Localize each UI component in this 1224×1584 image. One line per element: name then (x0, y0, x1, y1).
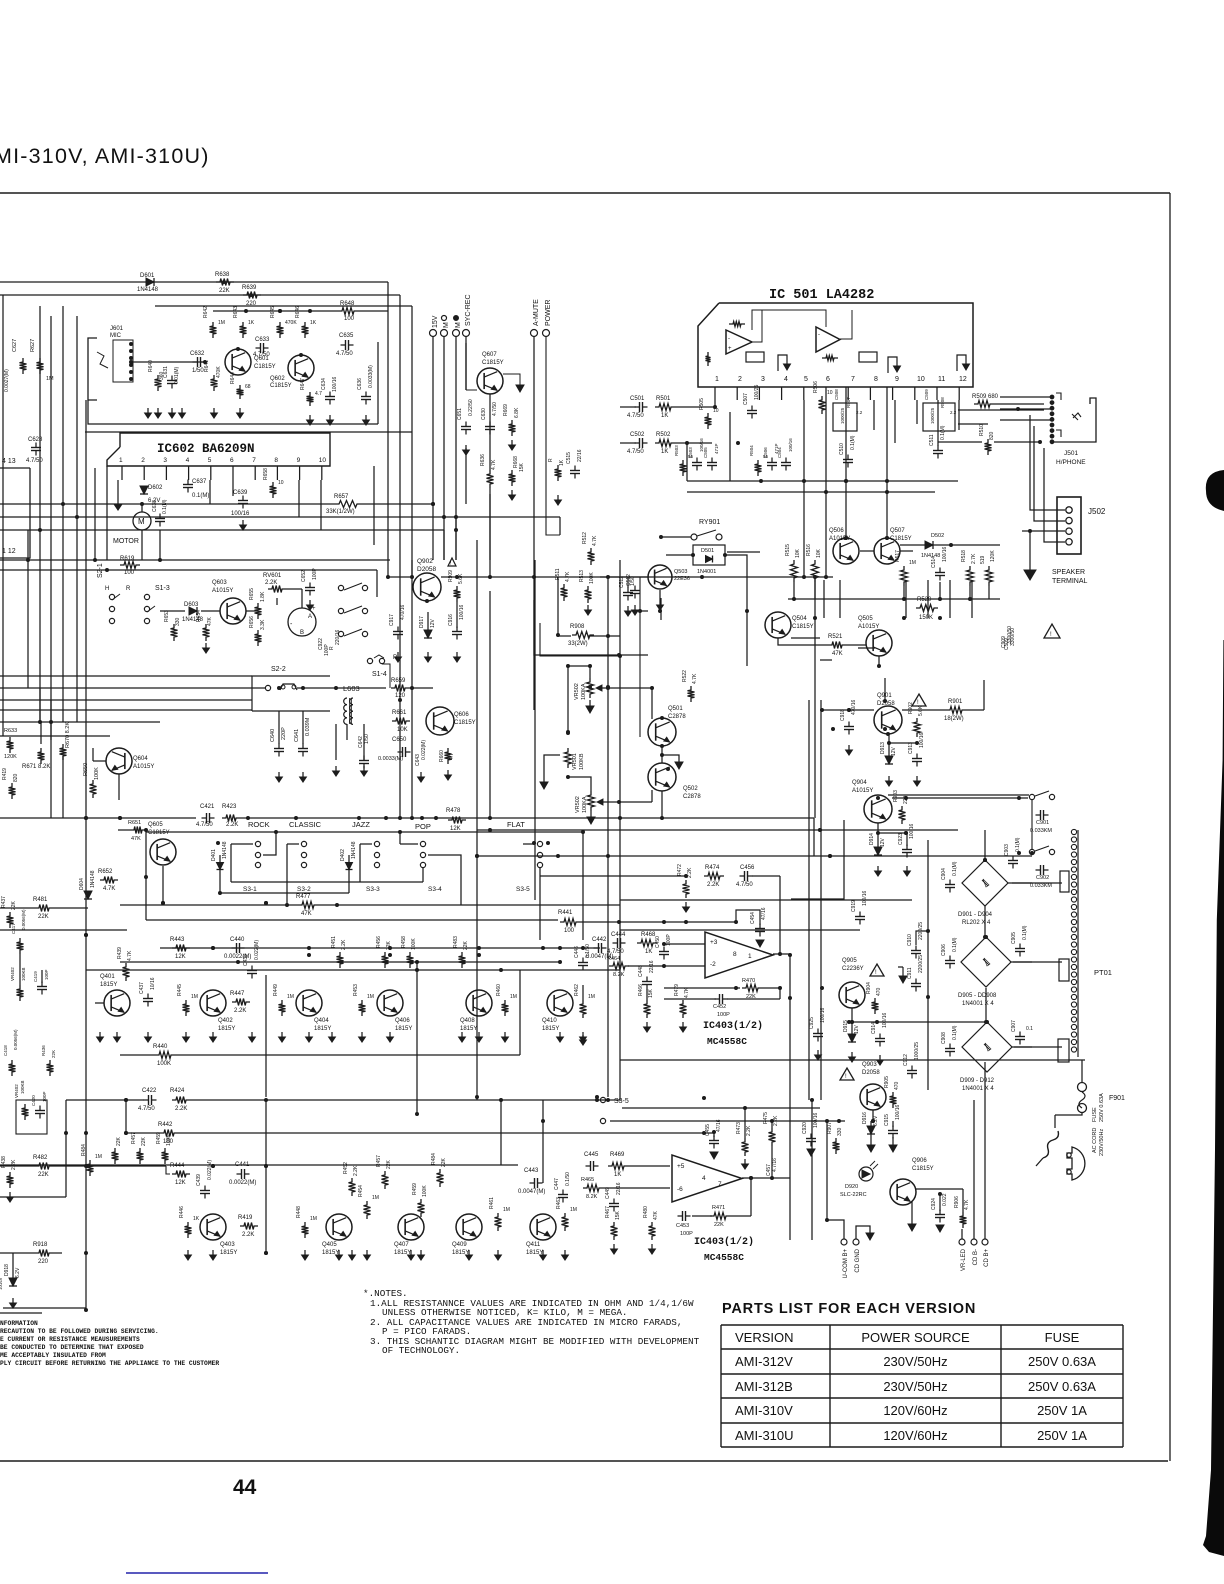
svg-text:C904: C904 (941, 868, 947, 880)
svg-text:250V 0.63A: 250V 0.63A (1028, 1354, 1096, 1369)
capacitor C505 (703, 443, 719, 470)
svg-text:A1015Y: A1015Y (133, 764, 154, 770)
transistor Q408 (460, 990, 492, 1032)
svg-text:R643: R643 (233, 306, 239, 318)
svg-text:POWER: POWER (545, 300, 552, 326)
svg-text:R424: R424 (170, 1088, 185, 1094)
svg-text:A1015Y: A1015Y (858, 624, 879, 630)
svg-text:9: 9 (895, 376, 899, 383)
capacitor C501 (627, 396, 648, 419)
svg-text:470K: 470K (216, 366, 222, 378)
svg-text:2.2K: 2.2K (226, 822, 238, 828)
svg-text:+: + (728, 346, 732, 352)
svg-text:0.1(M): 0.1(M) (952, 861, 958, 876)
svg-text:C506: C506 (763, 447, 768, 458)
svg-text:100K: 100K (157, 1061, 171, 1067)
resistor R669 (503, 404, 520, 450)
switch S3-3 (360, 841, 380, 893)
wire row y736 (0, 735, 110, 737)
capacitor C444 (607, 932, 626, 955)
svg-text:R448: R448 (296, 1206, 302, 1218)
svg-text:2: 2 (738, 376, 742, 383)
svg-text:47K: 47K (832, 651, 843, 657)
capacitor C925 (809, 1007, 826, 1060)
svg-text:R: R (393, 655, 398, 661)
svg-text:C906: C906 (941, 944, 947, 956)
IC501 pin stubs (715, 387, 959, 400)
capacitor C651 (457, 399, 474, 455)
svg-text:-6: -6 (677, 1186, 683, 1193)
svg-text:22/16: 22/16 (577, 449, 583, 462)
capacitor C914 (871, 1012, 888, 1065)
resistor R653 (164, 610, 181, 641)
svg-text:100KB: 100KB (20, 1080, 25, 1094)
wire testpoint A-MUTE (531, 299, 541, 710)
svg-text:100K: 100K (94, 767, 100, 780)
parts table (721, 1325, 1123, 1447)
IC602 outline (107, 433, 330, 466)
svg-text:C902: C902 (1036, 875, 1049, 881)
svg-text:AMI-310V: AMI-310V (735, 1403, 793, 1418)
svg-text:ME ACCEPTABLY INSULATED FROM: ME ACCEPTABLY INSULATED FROM (0, 1352, 106, 1359)
svg-text:0.1(M): 0.1(M) (850, 435, 856, 450)
diode D918 (0, 1253, 21, 1308)
svg-text:0.0027(M): 0.0027(M) (4, 369, 10, 392)
transistor Q404 (296, 990, 331, 1032)
svg-text:Q505: Q505 (858, 616, 873, 622)
svg-text:C916: C916 (448, 614, 454, 626)
svg-text:C447: C447 (554, 1178, 560, 1190)
svg-text:R660: R660 (439, 750, 445, 762)
svg-text:Q604: Q604 (133, 756, 148, 762)
svg-text:22/16: 22/16 (649, 960, 655, 973)
svg-text:100/16: 100/16 (862, 890, 868, 906)
svg-text:1M: 1M (46, 376, 54, 382)
capacitor C454 (734, 907, 767, 947)
wire opamp b net (692, 1176, 790, 1216)
svg-text:100/16: 100/16 (942, 546, 948, 562)
svg-text:1N4148: 1N4148 (90, 870, 96, 888)
capacitor C632 (190, 351, 206, 374)
wire IC501 right web (938, 404, 1044, 442)
svg-text:1M: 1M (367, 994, 374, 1000)
svg-text:2.2K: 2.2K (746, 1125, 752, 1136)
resistor R419L (2, 768, 19, 799)
svg-text:R644: R644 (230, 372, 236, 384)
svg-text:R516: R516 (806, 544, 812, 556)
svg-text:C501: C501 (630, 396, 645, 402)
svg-text:2200/25: 2200/25 (918, 955, 924, 973)
resistor R437 (1, 896, 17, 928)
resistor R655 (249, 588, 266, 619)
svg-text:100K: 100K (166, 1134, 172, 1146)
svg-text:R466: R466 (638, 984, 644, 996)
svg-text:+: + (312, 606, 316, 612)
svg-text:R446: R446 (179, 1206, 185, 1218)
resistor R502 (655, 432, 675, 455)
resistor R509 (972, 394, 999, 408)
wire mute web (640, 551, 913, 618)
resistor R519 (980, 550, 996, 599)
transistor Q410 (542, 990, 573, 1032)
svg-text:4.7/50: 4.7/50 (492, 402, 498, 416)
svg-text:C420: C420 (31, 1095, 36, 1106)
transistor Q501 (648, 706, 686, 746)
wire bus y504 (0, 503, 433, 505)
wire left verts mid (28, 306, 51, 722)
svg-text:12V: 12V (854, 1024, 860, 1034)
resistor R511 (555, 568, 571, 601)
svg-text:5: 5 (804, 376, 808, 383)
left cluster C418 (3, 1029, 18, 1076)
resistor R908 (568, 624, 594, 647)
svg-text:C511: C511 (929, 434, 935, 446)
svg-text:Q906: Q906 (912, 1158, 927, 1164)
svg-text:C639: C639 (233, 490, 248, 496)
svg-text:2.2K: 2.2K (707, 882, 719, 888)
capacitor C628 (26, 437, 43, 464)
wire ps top (820, 680, 984, 710)
capacitor C901 (1030, 810, 1052, 834)
svg-text:250V 0.63A: 250V 0.63A (1028, 1379, 1096, 1394)
svg-text:0.0056(M): 0.0056(M) (21, 909, 26, 930)
svg-text:10: 10 (319, 457, 327, 464)
svg-text:Q905: Q905 (842, 958, 857, 964)
svg-text:Q407: Q407 (394, 1242, 409, 1248)
capacitor C439 (196, 1160, 213, 1199)
wire IC501 down web (804, 387, 959, 538)
resistor R510 (979, 424, 995, 455)
row2 top resistors (0, 1136, 518, 1165)
resistor R457b (131, 1132, 147, 1164)
wire trunk G (790, 577, 815, 1240)
op-amp U1b (816, 327, 840, 352)
svg-text:Q902: Q902 (417, 558, 433, 565)
label J501 (1056, 450, 1086, 466)
svg-text:J501: J501 (1064, 450, 1078, 457)
svg-text:1N4148: 1N4148 (351, 841, 357, 859)
capacitor C915 (884, 1104, 901, 1152)
transistor Q506 (829, 528, 859, 564)
svg-text:C456: C456 (740, 865, 755, 871)
capacitor C514 (931, 546, 948, 599)
svg-text:H/PHONE: H/PHONE (1056, 459, 1086, 466)
svg-text:1000/25: 1000/25 (930, 407, 935, 424)
svg-text:4.7K: 4.7K (964, 1199, 970, 1210)
svg-text:CD GND: CD GND (855, 1248, 861, 1272)
svg-text:D920: D920 (845, 1184, 858, 1190)
svg-text:1M: 1M (588, 994, 595, 1000)
capacitor C923 (898, 823, 915, 876)
svg-text:R481: R481 (33, 897, 48, 903)
svg-text:471P: 471P (714, 443, 719, 454)
svg-text:1000/25: 1000/25 (914, 1042, 920, 1060)
svg-text:47K: 47K (131, 836, 141, 842)
svg-text:470/16: 470/16 (400, 604, 406, 620)
IC602 pin wires (122, 466, 322, 530)
wire web x490 long (489, 494, 491, 818)
svg-text:Q401: Q401 (100, 974, 115, 980)
svg-text:MI-310V, AMI-310U): MI-310V, AMI-310U) (0, 144, 210, 168)
svg-text:120K: 120K (4, 754, 17, 760)
svg-text:C454: C454 (750, 912, 756, 924)
capacitor C907 (1011, 1020, 1033, 1045)
svg-text:120V/60Hz: 120V/60Hz (883, 1428, 947, 1443)
svg-text:10/16: 10/16 (150, 977, 156, 990)
svg-text:S3-5: S3-5 (614, 1098, 629, 1105)
bridge rectifier D905-D908 (958, 937, 1011, 1007)
svg-text:C638: C638 (152, 500, 158, 512)
switch mains 2 (1029, 846, 1054, 855)
capacitor C906 (941, 937, 958, 968)
svg-text:C1815Y: C1815Y (270, 383, 292, 389)
notes text (363, 1288, 700, 1356)
svg-text:3: 3 (761, 376, 765, 383)
svg-text:Q602: Q602 (270, 376, 285, 382)
svg-text:47K: 47K (207, 616, 213, 626)
svg-text:C630: C630 (481, 408, 487, 420)
wire bottom right verts (938, 1192, 941, 1211)
svg-text:R461: R461 (489, 1197, 495, 1209)
wire row y676 (0, 675, 252, 677)
right border (1169, 193, 1171, 1461)
svg-text:C1815Y: C1815Y (254, 364, 276, 370)
svg-text:15K: 15K (648, 988, 654, 998)
bridge rectifier D909-D912 (960, 1022, 1012, 1092)
svg-text:NFORMATION: NFORMATION (0, 1320, 38, 1327)
svg-text:R518: R518 (961, 550, 967, 562)
resistor R503 (674, 445, 694, 476)
svg-text:R656: R656 (249, 616, 255, 628)
svg-text:C908: C908 (941, 1032, 947, 1044)
capacitor C918 (840, 699, 857, 755)
switch mains 1 (1029, 791, 1054, 800)
wire q501 net (660, 746, 683, 769)
svg-text:C915: C915 (884, 1114, 890, 1126)
svg-text:11: 11 (938, 376, 945, 383)
resistor R448 (296, 1206, 317, 1238)
svg-text:4.7/50: 4.7/50 (253, 352, 270, 358)
resistor R442 (158, 1122, 178, 1145)
svg-text:D401: D401 (211, 849, 217, 861)
svg-text:C508: C508 (834, 389, 839, 400)
svg-text:8: 8 (874, 376, 878, 383)
label MC4558C b (704, 1252, 744, 1263)
transistor Q405 (322, 1214, 352, 1256)
svg-text:100K: 100K (589, 572, 595, 584)
svg-text:R: R (329, 646, 335, 650)
wire opamp a net (583, 944, 790, 1000)
svg-text:R640: R640 (148, 360, 154, 372)
svg-text:R458: R458 (401, 936, 407, 948)
resistor R444 (170, 1163, 190, 1186)
svg-text:C449: C449 (605, 1187, 611, 1199)
svg-text:C924: C924 (931, 1198, 937, 1210)
svg-text:C641: C641 (294, 729, 300, 742)
svg-text:R642: R642 (203, 306, 209, 318)
transistor Q407 (394, 1214, 424, 1256)
resistor R654 (196, 610, 213, 653)
svg-text:R459: R459 (156, 1132, 162, 1144)
svg-text:R513: R513 (579, 570, 585, 582)
svg-text:VR502: VR502 (574, 683, 580, 700)
svg-text:8: 8 (274, 457, 278, 464)
svg-text:R465: R465 (581, 1177, 594, 1183)
resistor R904 (866, 982, 882, 1014)
svg-text:12K: 12K (450, 826, 461, 832)
svg-text:1K: 1K (310, 320, 317, 326)
svg-text:!: ! (450, 561, 451, 567)
resistor R484c (431, 1153, 447, 1187)
svg-text:C503: C503 (688, 447, 693, 458)
diode D914 (869, 833, 886, 876)
resistor R661 (392, 710, 410, 733)
svg-text:100/16: 100/16 (332, 376, 338, 392)
capacitor C447 (554, 1172, 571, 1203)
svg-text:-: - (728, 336, 730, 342)
connector CD B- (971, 1100, 979, 1265)
svg-text:R475: R475 (763, 1112, 769, 1124)
wire to phones (0, 0, 1, 1)
resistor R441 (558, 910, 736, 934)
wire net y492 (687, 491, 935, 493)
IC501 inner wire ext (752, 310, 852, 342)
svg-text:470K: 470K (285, 320, 297, 326)
svg-text:0.033KM: 0.033KM (1030, 883, 1052, 889)
capacitor C511i (929, 425, 946, 458)
resistor R457 (0, 0, 1, 1)
resistor R501 (655, 396, 675, 419)
svg-text:4.7: 4.7 (315, 391, 322, 397)
svg-text:22K: 22K (714, 1222, 724, 1228)
svg-text:AC CORD: AC CORD (1092, 1128, 1098, 1153)
resistor R902 (908, 702, 924, 737)
wire eq outputs (0, 907, 88, 909)
resistor R436 (41, 1045, 56, 1076)
resistor R660 (439, 748, 455, 764)
svg-text:R907: R907 (827, 1122, 833, 1134)
svg-text:1815Y: 1815Y (100, 982, 117, 988)
svg-text:SLC-22RC: SLC-22RC (840, 1192, 867, 1198)
svg-text:R453: R453 (353, 984, 359, 996)
left cluster C417 (11, 909, 26, 954)
svg-text:22K: 22K (219, 288, 230, 294)
wire R636 down (466, 448, 490, 560)
fuse F901 (1078, 1060, 1126, 1113)
capacitor C448 (638, 960, 655, 989)
capacitor C640 (270, 711, 287, 782)
pot RV601 (263, 573, 286, 593)
diode D604 (79, 870, 96, 899)
svg-text:6: 6 (230, 457, 234, 464)
svg-text:F901: F901 (1109, 1095, 1125, 1102)
svg-text:A1015Y: A1015Y (212, 588, 233, 594)
capacitor C510b (0, 0, 1, 1)
svg-text:R636: R636 (480, 454, 486, 466)
resistor R645 (270, 306, 297, 338)
svg-text:R484: R484 (431, 1153, 437, 1165)
transistor Q905 (839, 958, 865, 1008)
svg-text:Q506: Q506 (829, 528, 844, 534)
svg-text:Q409: Q409 (452, 1242, 467, 1248)
wire L603 (336, 724, 364, 760)
svg-text:C443: C443 (524, 1168, 539, 1174)
svg-text:D601: D601 (140, 273, 155, 279)
transistor Q603 (212, 580, 246, 624)
svg-text:M: M (443, 322, 450, 328)
svg-text:C633: C633 (255, 337, 270, 343)
svg-text:Q607: Q607 (482, 352, 497, 358)
svg-text:R472: R472 (677, 864, 683, 876)
resistor R642 (203, 306, 225, 338)
svg-text:R905: R905 (884, 1076, 890, 1088)
capacitor C908 (941, 1025, 958, 1056)
svg-text:1: 1 (715, 376, 719, 383)
svg-text:1M: 1M (191, 994, 198, 1000)
svg-text:3.3K: 3.3K (260, 619, 266, 630)
wire rail over transistors (213, 309, 338, 312)
svg-text:10K: 10K (816, 548, 822, 558)
svg-text:100/16: 100/16 (0, 1277, 3, 1290)
svg-text:0.022(M): 0.022(M) (254, 940, 260, 960)
diode D402 (340, 841, 357, 893)
capacitor C641 (294, 711, 311, 782)
svg-text:R646: R646 (295, 306, 301, 318)
svg-text:2.2: 2.2 (856, 410, 863, 415)
svg-text:33K(1/2W): 33K(1/2W) (326, 509, 355, 515)
wire testpoint 15V (430, 315, 440, 504)
jack J501 contacts (1050, 393, 1061, 444)
svg-text:C651: C651 (457, 408, 463, 420)
wire left vert 1 (3, 295, 63, 736)
svg-text:12V: 12V (430, 618, 436, 628)
capacitor C639 (231, 490, 250, 517)
svg-text:+5: +5 (677, 1163, 685, 1170)
svg-text:AMI-312V: AMI-312V (735, 1354, 793, 1369)
svg-text:230V/50Hz: 230V/50Hz (883, 1379, 947, 1394)
IC501 under web (687, 442, 712, 444)
svg-text:C422: C422 (142, 1088, 157, 1094)
wire web x477 (477, 1050, 543, 1183)
svg-text:4.7K: 4.7K (491, 459, 497, 470)
svg-text:S3-5: S3-5 (516, 886, 530, 893)
svg-text:R454: R454 (358, 1185, 364, 1197)
svg-text:10: 10 (713, 408, 719, 414)
svg-text:R440: R440 (153, 1044, 168, 1050)
hook pin12 (957, 355, 970, 371)
svg-text:100KB: 100KB (21, 967, 26, 981)
svg-text:10: 10 (278, 480, 284, 486)
svg-text:1815Y: 1815Y (460, 1026, 477, 1032)
cluster C509 R508 (923, 389, 957, 431)
svg-text:D2058: D2058 (862, 1070, 880, 1076)
bottom rule (0, 1460, 1168, 1462)
svg-text:1M: 1M (310, 1216, 317, 1222)
svg-text:FLAT: FLAT (507, 820, 525, 829)
svg-text:22K: 22K (441, 1157, 447, 1167)
resistor R656 (249, 616, 266, 646)
svg-text:Q501: Q501 (668, 706, 683, 712)
resistor R452 (343, 1162, 359, 1196)
svg-text:CD B-: CD B- (973, 1249, 979, 1265)
svg-text:POWER SOURCE: POWER SOURCE (861, 1330, 970, 1345)
connector CD B+ (982, 1062, 990, 1267)
wire ac net (1055, 1113, 1082, 1115)
svg-text:C1815Y: C1815Y (148, 830, 170, 836)
svg-text:C907: C907 (1011, 1020, 1017, 1032)
label CLASSIC (289, 820, 322, 829)
svg-text:3: 3 (163, 457, 167, 464)
